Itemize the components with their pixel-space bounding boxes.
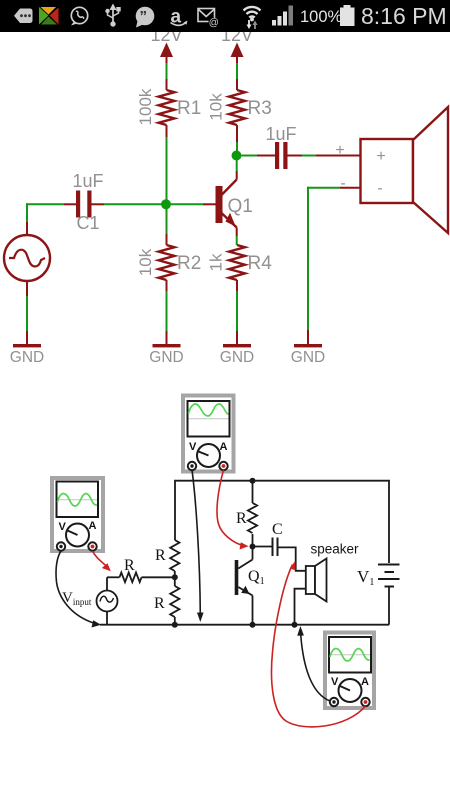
svg-text:-: - [340, 175, 345, 192]
wire base node to Q1 base [171, 203, 216, 205]
svg-text:V: V [331, 676, 339, 688]
svg-text:A: A [220, 441, 228, 453]
node top rail junction dot [250, 478, 256, 484]
svg-text:+: + [335, 142, 344, 159]
svg-text:Q1: Q1 [248, 568, 265, 587]
wire Q1 emitter to R4 [236, 228, 238, 246]
svg-text:GND: GND [149, 349, 183, 366]
wire collector node to output cap [242, 155, 276, 157]
wire R4 to ground [236, 280, 238, 344]
node base junction dot [161, 199, 171, 209]
resistor R (lower bias divider) [154, 577, 179, 624]
source V_input AC [62, 577, 118, 624]
capacitor C (coupling) [253, 521, 283, 556]
ground GND (R4) [220, 344, 254, 366]
svg-text:R: R [154, 595, 165, 612]
svg-text:R2: R2 [177, 253, 201, 274]
svg-text:speaker: speaker [311, 542, 360, 557]
wire speaker - to ground [307, 175, 361, 344]
svg-text:R1: R1 [177, 98, 201, 119]
node bottom rail speaker dot [292, 622, 298, 628]
power 12V supply arrow (right) [221, 25, 253, 63]
svg-text:+: + [376, 148, 385, 165]
svg-text:@: @ [209, 18, 219, 29]
svg-text:Q1: Q1 [228, 196, 253, 217]
node bottom rail divider dot [172, 622, 178, 628]
speaker symbol [306, 542, 359, 602]
probe black (left instrument to bottom rail) [56, 551, 101, 628]
icon USB [106, 5, 120, 27]
wire top rail [175, 481, 389, 563]
speaker LS1 [361, 107, 449, 233]
svg-text:R3: R3 [248, 98, 272, 119]
svg-text:C: C [272, 521, 283, 538]
svg-text:C1: C1 [76, 213, 99, 233]
icon AVG antivirus [39, 7, 59, 25]
svg-text:100%: 100% [300, 8, 343, 26]
resistor R (series input) [107, 557, 175, 582]
ground GND (R2) [149, 344, 183, 366]
resistor R (collector) [236, 481, 257, 547]
svg-text:A: A [361, 676, 369, 688]
power 12V supply arrow (left) [150, 25, 182, 63]
svg-text:R4: R4 [248, 253, 273, 274]
probe red (top instrument to collector node) [217, 470, 249, 550]
svg-text:100k: 100k [136, 88, 155, 125]
svg-text:10k: 10k [136, 248, 155, 276]
source sine AC input [4, 235, 50, 281]
icon Hangouts [136, 7, 155, 28]
resistor R4 1k [207, 245, 273, 280]
node collector junction dot [232, 151, 242, 161]
svg-text:R: R [124, 557, 135, 574]
wire R1 to base node [166, 125, 168, 204]
capacitor C1 1uF [72, 171, 103, 233]
resistor R (upper bias divider) [155, 540, 179, 577]
svg-text:V1: V1 [357, 567, 375, 588]
svg-text:10k: 10k [207, 93, 226, 121]
svg-text:-: - [377, 180, 382, 197]
node base divider junction dot [172, 574, 178, 580]
wire 12V to R1 [166, 63, 168, 90]
probe black (bottom-right instrument to bottom rail) [297, 626, 330, 701]
battery V1 [357, 565, 400, 625]
resistor R2 10k [136, 209, 201, 280]
ground GND (speaker) [291, 344, 325, 366]
icon WhatsApp [71, 7, 88, 25]
resistor R1 100k [136, 88, 201, 125]
wire Q1 collector to node [236, 159, 238, 180]
capacitor 1uF (output coupling) [265, 124, 296, 169]
transistor Q1 NPN [216, 180, 253, 228]
svg-text:1k: 1k [207, 253, 226, 271]
status bar [0, 0, 450, 32]
icon signal bars [272, 6, 293, 26]
icon WiFi [244, 7, 261, 29]
svg-text:1uF: 1uF [72, 171, 103, 191]
svg-text:”: ” [140, 8, 148, 25]
icon battery [340, 5, 355, 26]
instrument multimeter (left) [52, 478, 103, 551]
svg-text:V: V [59, 521, 67, 533]
svg-text:GND: GND [291, 349, 325, 366]
node bottom rail emitter dot [250, 622, 256, 628]
wire bottom rail [100, 624, 389, 626]
instrument multimeter (bottom-right) [325, 633, 374, 709]
wire 12V to R3 [236, 63, 238, 90]
node collector junction dot [250, 544, 256, 550]
probe red (left instrument to input node) [93, 551, 111, 571]
instrument multimeter (top) [183, 396, 234, 472]
wire R3 to collector node [236, 125, 238, 156]
svg-text:GND: GND [220, 349, 254, 366]
icon email [198, 9, 219, 29]
wire AC source to ground [26, 281, 28, 344]
probe black (top instrument to ground rail) [192, 470, 204, 622]
wire C to speaker [278, 547, 306, 570]
svg-text:GND: GND [10, 349, 44, 366]
wire AC source to C1 [26, 203, 76, 235]
svg-text:1uF: 1uF [265, 124, 296, 144]
svg-text:V: V [189, 441, 197, 453]
svg-text:A: A [89, 520, 97, 532]
wire R2 to ground [166, 280, 168, 344]
icon Amazon [171, 7, 188, 28]
wire speaker return [295, 589, 306, 625]
ground GND (source) [10, 344, 44, 366]
icon message bubble [14, 9, 33, 24]
svg-text:R: R [155, 547, 166, 564]
svg-text:R: R [236, 510, 247, 527]
probe red (bottom-right instrument to speaker input) [271, 561, 365, 727]
svg-text:8:16 PM: 8:16 PM [361, 3, 447, 29]
transistor Q1 [235, 547, 265, 625]
resistor R3 10k [207, 90, 272, 125]
wire output cap to speaker + [288, 142, 361, 159]
wire C1 to base node [92, 203, 167, 205]
